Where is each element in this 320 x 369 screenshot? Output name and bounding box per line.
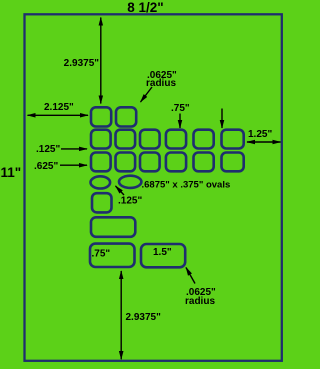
svg-text:.75": .75" — [92, 249, 111, 260]
annotation .125 row gap — [36, 144, 87, 155]
svg-text:.75": .75" — [171, 103, 190, 114]
label square row2 col6 — [222, 130, 244, 149]
label square row2 col4 — [166, 130, 186, 149]
svg-text:2.9375": 2.9375" — [126, 312, 162, 323]
svg-text:radius: radius — [185, 296, 215, 307]
svg-text:.125": .125" — [118, 196, 142, 207]
svg-text:11": 11" — [1, 165, 22, 180]
svg-text:.125": .125" — [36, 144, 60, 155]
label rect row6 — [91, 217, 135, 237]
label square row2 col1 — [91, 130, 111, 149]
annotation .75 square pointer — [171, 103, 190, 128]
dimension 1.25 right margin — [247, 129, 281, 142]
label square row2 col3 — [140, 130, 160, 149]
annotation .125 oval gap — [116, 186, 143, 207]
label square row1 col2 — [116, 107, 136, 126]
dimension 2.9375 bottom margin — [121, 271, 161, 359]
svg-text:.625": .625" — [34, 161, 58, 172]
dimension 2.125 left margin — [28, 102, 89, 115]
label square row2 col5 — [194, 130, 214, 149]
svg-text:radius: radius — [146, 78, 176, 89]
svg-text:2.9375": 2.9375" — [64, 58, 100, 69]
svg-text:1.25": 1.25" — [248, 129, 272, 140]
label rect row7 with .75 — [90, 244, 135, 267]
oval label 2 — [119, 176, 141, 188]
label square row1 col1 — [91, 107, 111, 126]
label square row3 col5 — [194, 153, 214, 172]
dimension 2.9375 top margin — [64, 18, 101, 104]
label square row3 col4 — [166, 153, 186, 172]
label square row3 col1 — [91, 153, 111, 172]
svg-text:1.5": 1.5" — [153, 247, 172, 258]
label square row3 col2 — [116, 153, 136, 172]
svg-text:2.125": 2.125" — [44, 102, 74, 113]
label square row3 col6 — [222, 153, 244, 172]
label square row5 — [92, 193, 112, 212]
svg-text:.6875" x .375" ovals: .6875" x .375" ovals — [142, 179, 231, 190]
label square row3 col3 — [140, 153, 160, 172]
svg-text:8 1/2": 8 1/2" — [127, 0, 163, 15]
label square row2 col2 — [116, 130, 136, 149]
annotation .0625 radius (top) — [141, 70, 178, 102]
pointer arrow to row2 col6 — [221, 109, 223, 129]
sheet outline — [25, 14, 282, 361]
oval label 1 — [91, 176, 111, 188]
label rect 1.5 — [141, 244, 185, 267]
annotation .625 row height — [34, 161, 87, 172]
annotation .0625 radius (bottom) — [185, 268, 216, 308]
